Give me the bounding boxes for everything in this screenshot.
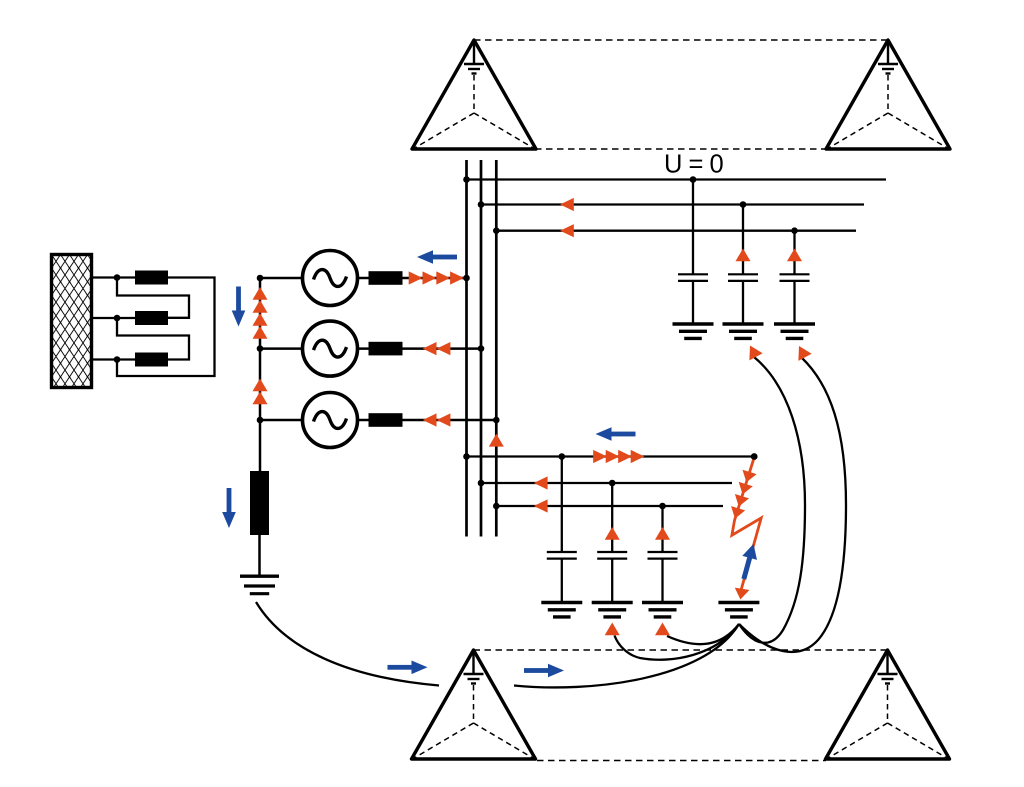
svg-text:U = 0: U = 0	[664, 151, 723, 179]
